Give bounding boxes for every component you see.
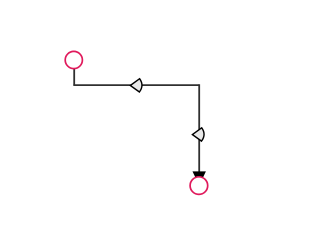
black filled arrowhead at end of wire (193, 171, 206, 185)
wire horizontal segment (73, 84, 199, 86)
direction marker arrowhead M2 on vertical wire (192, 128, 204, 141)
wire vertical segment to end node (198, 84, 200, 172)
direction marker arrowhead M1 on horizontal wire (130, 79, 142, 92)
wire vertical segment from start node (73, 64, 75, 85)
start node terminal circle (65, 51, 82, 68)
end node terminal circle (190, 177, 208, 195)
